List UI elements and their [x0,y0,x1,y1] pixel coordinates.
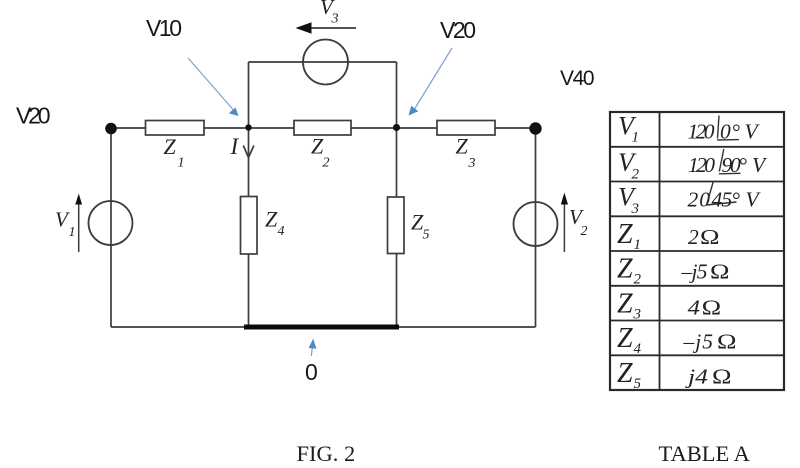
table value V1: 120 angle 0 deg V [688,116,761,144]
node: V10 junction dot [245,124,251,130]
label V3 source [320,0,339,27]
svg-text:3: 3 [468,156,476,171]
resistor Z2 box [294,121,351,136]
table value Z5: j4 ohm [684,365,731,389]
table A row line 2 [610,181,784,183]
svg-text:Ω: Ω [717,331,736,354]
resistor Z4 box [241,197,258,255]
svg-text:1: 1 [69,225,76,240]
annotation arrow (blue) pointing up at ground bar node 0 [309,339,317,357]
svg-text:1: 1 [634,237,642,253]
svg-text:V10: V10 [146,15,182,41]
svg-text:Z: Z [617,358,633,389]
voltage source V2 circle [514,202,558,246]
ground node 0 thick bar [244,325,399,330]
svg-text:V20: V20 [16,103,51,129]
arrow: V2 reference direction pointing up [561,193,568,253]
svg-text:FIG. 2: FIG. 2 [297,441,356,466]
wire: right vertical branch through V2 [535,128,537,327]
label Z4 [265,207,285,240]
svg-text:2: 2 [323,156,330,171]
wire: left vertical branch through V1 [110,128,112,327]
svg-text:2: 2 [632,167,640,183]
svg-text:Z: Z [265,207,278,232]
svg-text:Z: Z [617,219,633,250]
resistor Z5 box [388,197,405,254]
label Z2 [311,134,330,171]
table value Z3: 4 ohm [688,296,721,320]
wire: node V10 up to top loop [248,62,250,128]
label Z5 [411,210,430,243]
svg-text:3: 3 [633,306,642,322]
wire: node V10 down through Z4 to bottom bus [248,128,250,327]
svg-text:Z: Z [617,288,633,319]
table A row line 5 [610,285,784,287]
table A column divider [659,112,661,390]
resistor Z1 box [146,121,205,136]
resistor Z3 box [437,121,495,136]
svg-text:5: 5 [423,228,430,243]
table A row line 1 [610,146,784,148]
arrow: V3 reference direction pointing left [296,22,357,33]
table label Z1 [617,219,641,253]
table value Z2: -j5 ohm [681,260,730,284]
arrow: V1 reference direction pointing up [75,194,82,253]
svg-text:0°: 0° [720,120,740,144]
table label Z3 [617,288,641,322]
svg-text:4: 4 [634,341,642,357]
table label V2 [618,148,640,183]
table label Z4 [617,323,642,357]
label Z3 [456,134,476,172]
svg-text:2: 2 [634,272,642,288]
svg-text:2: 2 [688,225,699,249]
voltage source V3 circle [303,40,348,85]
svg-text:4: 4 [278,224,285,239]
label Z1 [164,134,185,171]
node: V20 junction dot [393,124,400,131]
svg-text:45°: 45° [712,188,741,212]
svg-text:1: 1 [178,156,185,171]
table A row line 6 [610,320,784,322]
label V1 source [55,208,76,241]
label V2 source [569,205,588,239]
svg-text:–j5: –j5 [681,260,708,284]
svg-text:2: 2 [581,224,588,239]
svg-text:Ω: Ω [712,366,731,389]
svg-text:Ω: Ω [702,297,721,320]
svg-text:120: 120 [688,120,715,144]
wire: top loop down to node V20 [396,62,398,128]
svg-text:I: I [230,134,240,159]
table label V1 [618,112,639,146]
arrow: branch current I chevron pointing down [243,146,254,158]
svg-text:5: 5 [634,376,642,392]
svg-text:Z: Z [456,134,469,159]
svg-text:j4: j4 [684,365,708,389]
wire: Z1 to node V10 to Z2 [204,127,294,129]
table A outer border [610,112,784,390]
svg-text:TABLE A: TABLE A [659,441,751,466]
svg-text:20: 20 [688,188,711,212]
svg-text:3: 3 [631,201,640,217]
svg-text:–j5: –j5 [683,330,714,354]
wire: Z3 to right node [495,127,536,129]
svg-text:1: 1 [632,130,640,146]
svg-text:90°: 90° [722,153,748,177]
voltage source V1 circle [89,201,133,245]
svg-text:V20: V20 [440,17,476,43]
table value V2: 120 angle 90 deg V [688,149,768,177]
svg-text:Z: Z [617,323,633,354]
wire: node V20 down through Z5 to bottom bus [396,128,398,327]
table A row line 4 [610,250,784,252]
svg-text:0: 0 [305,359,318,385]
annotation arrow (blue) from V10 label to node V10 [188,58,239,116]
wire: main bus, left node to Z1 [111,127,146,129]
table value Z4: -j5 ohm [683,330,737,354]
svg-text:4: 4 [688,296,701,320]
svg-text:V40: V40 [560,67,595,90]
table label Z2 [617,254,642,288]
wire: Z2 to node V20 to Z3 [351,127,437,129]
svg-text:Z: Z [617,254,633,285]
wire: bottom bus [111,326,536,328]
svg-text:Z: Z [164,134,177,159]
table label Z5 [617,358,642,392]
svg-text:120: 120 [688,153,715,177]
table label V3 [618,182,639,217]
node: left junction dot [105,123,117,135]
table A row line 7 [610,354,784,356]
node: V40 right junction dot [529,122,541,134]
table value Z1: 2 ohm [688,225,719,249]
svg-text:Ω: Ω [700,226,719,249]
table value V3: 20 angle 45 deg V [688,182,762,212]
table A row line 3 [610,215,784,217]
svg-text:Ω: Ω [710,261,729,284]
svg-text:3: 3 [331,12,339,27]
wire: top loop horizontal through V3 [249,61,397,63]
annotation arrow (blue) from V20 label to node V20 [409,48,453,116]
